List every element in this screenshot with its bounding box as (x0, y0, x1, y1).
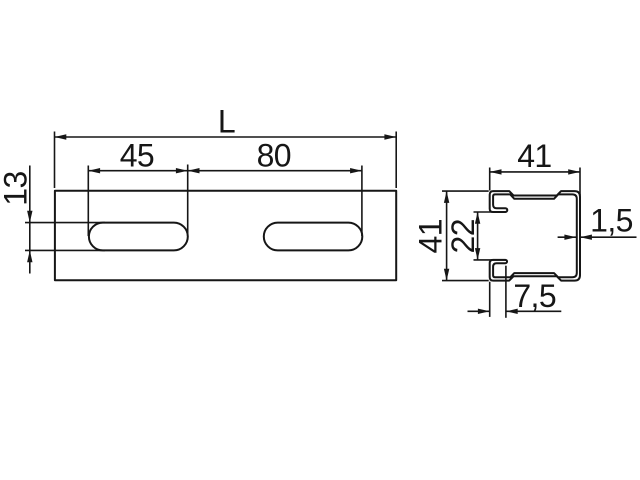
bar outline (55, 191, 396, 281)
svg-text:22: 22 (445, 219, 481, 253)
dimension 41 top (490, 138, 580, 196)
svg-text:1,5: 1,5 (590, 203, 633, 239)
slot right (264, 223, 363, 251)
svg-text:41: 41 (413, 219, 449, 253)
svg-text:41: 41 (517, 138, 551, 174)
dimension 7,5 (468, 266, 562, 318)
dimension 22 (445, 212, 506, 260)
svg-text:45: 45 (120, 138, 154, 174)
dimension 13 (0, 166, 105, 274)
dimension 41 left (413, 191, 489, 281)
dimension 80 (188, 138, 362, 237)
profile outline (sheet cross-section, closed path) (490, 191, 580, 281)
dimension 45 (88, 138, 187, 237)
svg-text:7,5: 7,5 (513, 278, 556, 314)
svg-text:13: 13 (0, 171, 33, 205)
slot left (89, 223, 188, 251)
svg-text:L: L (218, 103, 235, 139)
dimension L (55, 103, 397, 188)
svg-text:80: 80 (257, 138, 291, 174)
dimension 1,5 (558, 203, 637, 240)
